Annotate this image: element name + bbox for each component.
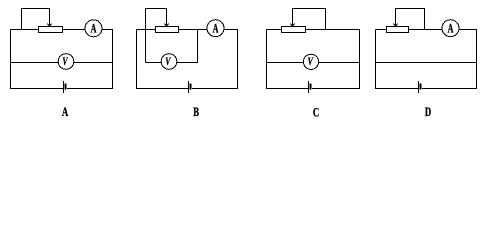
svg-text:D: D — [425, 106, 431, 120]
svg-text:A: A — [62, 106, 68, 120]
svg-text:B: B — [193, 106, 199, 120]
svg-text:A: A — [448, 22, 454, 36]
svg-text:A: A — [91, 22, 97, 36]
svg-text:A: A — [213, 22, 219, 36]
svg-text:C: C — [313, 106, 319, 120]
